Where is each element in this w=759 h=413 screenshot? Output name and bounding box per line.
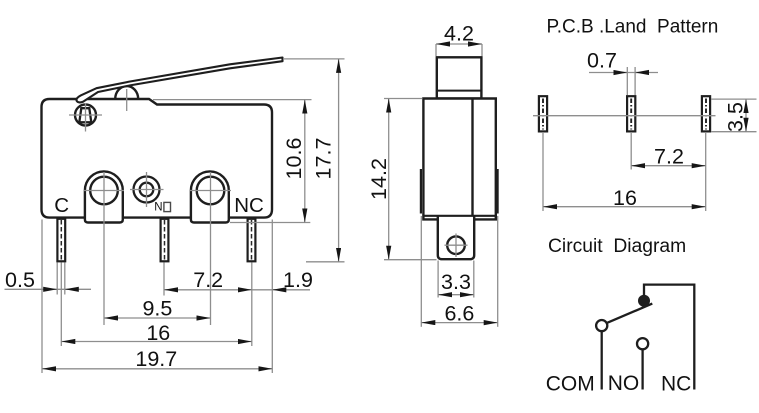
svg-text:9.5: 9.5 — [142, 296, 172, 320]
svg-text:16: 16 — [146, 321, 170, 345]
svg-text:3.5: 3.5 — [724, 102, 748, 132]
svg-text:7.2: 7.2 — [654, 144, 684, 168]
svg-text:7.2: 7.2 — [193, 268, 223, 292]
svg-text:19.7: 19.7 — [135, 347, 177, 371]
svg-text:16: 16 — [613, 186, 637, 210]
svg-text:NO: NO — [608, 372, 640, 395]
svg-text:NC: NC — [234, 194, 264, 217]
svg-text:0.7: 0.7 — [587, 49, 617, 73]
svg-text:C: C — [54, 194, 69, 217]
svg-text:17.7: 17.7 — [312, 138, 336, 180]
svg-text:P.C.B .Land Pattern: P.C.B .Land Pattern — [547, 17, 719, 38]
svg-text:N: N — [154, 202, 162, 214]
svg-text:6.6: 6.6 — [444, 302, 474, 326]
svg-text:1.9: 1.9 — [283, 268, 313, 292]
svg-text:COM: COM — [546, 373, 595, 396]
svg-text:14.2: 14.2 — [367, 158, 391, 200]
svg-text:4.2: 4.2 — [444, 22, 474, 46]
svg-text:10.6: 10.6 — [282, 138, 306, 180]
svg-text:0.5: 0.5 — [5, 268, 35, 292]
svg-text:NC: NC — [661, 373, 691, 396]
svg-text:Circuit Diagram: Circuit Diagram — [548, 236, 686, 257]
svg-text:3.3: 3.3 — [441, 270, 471, 294]
